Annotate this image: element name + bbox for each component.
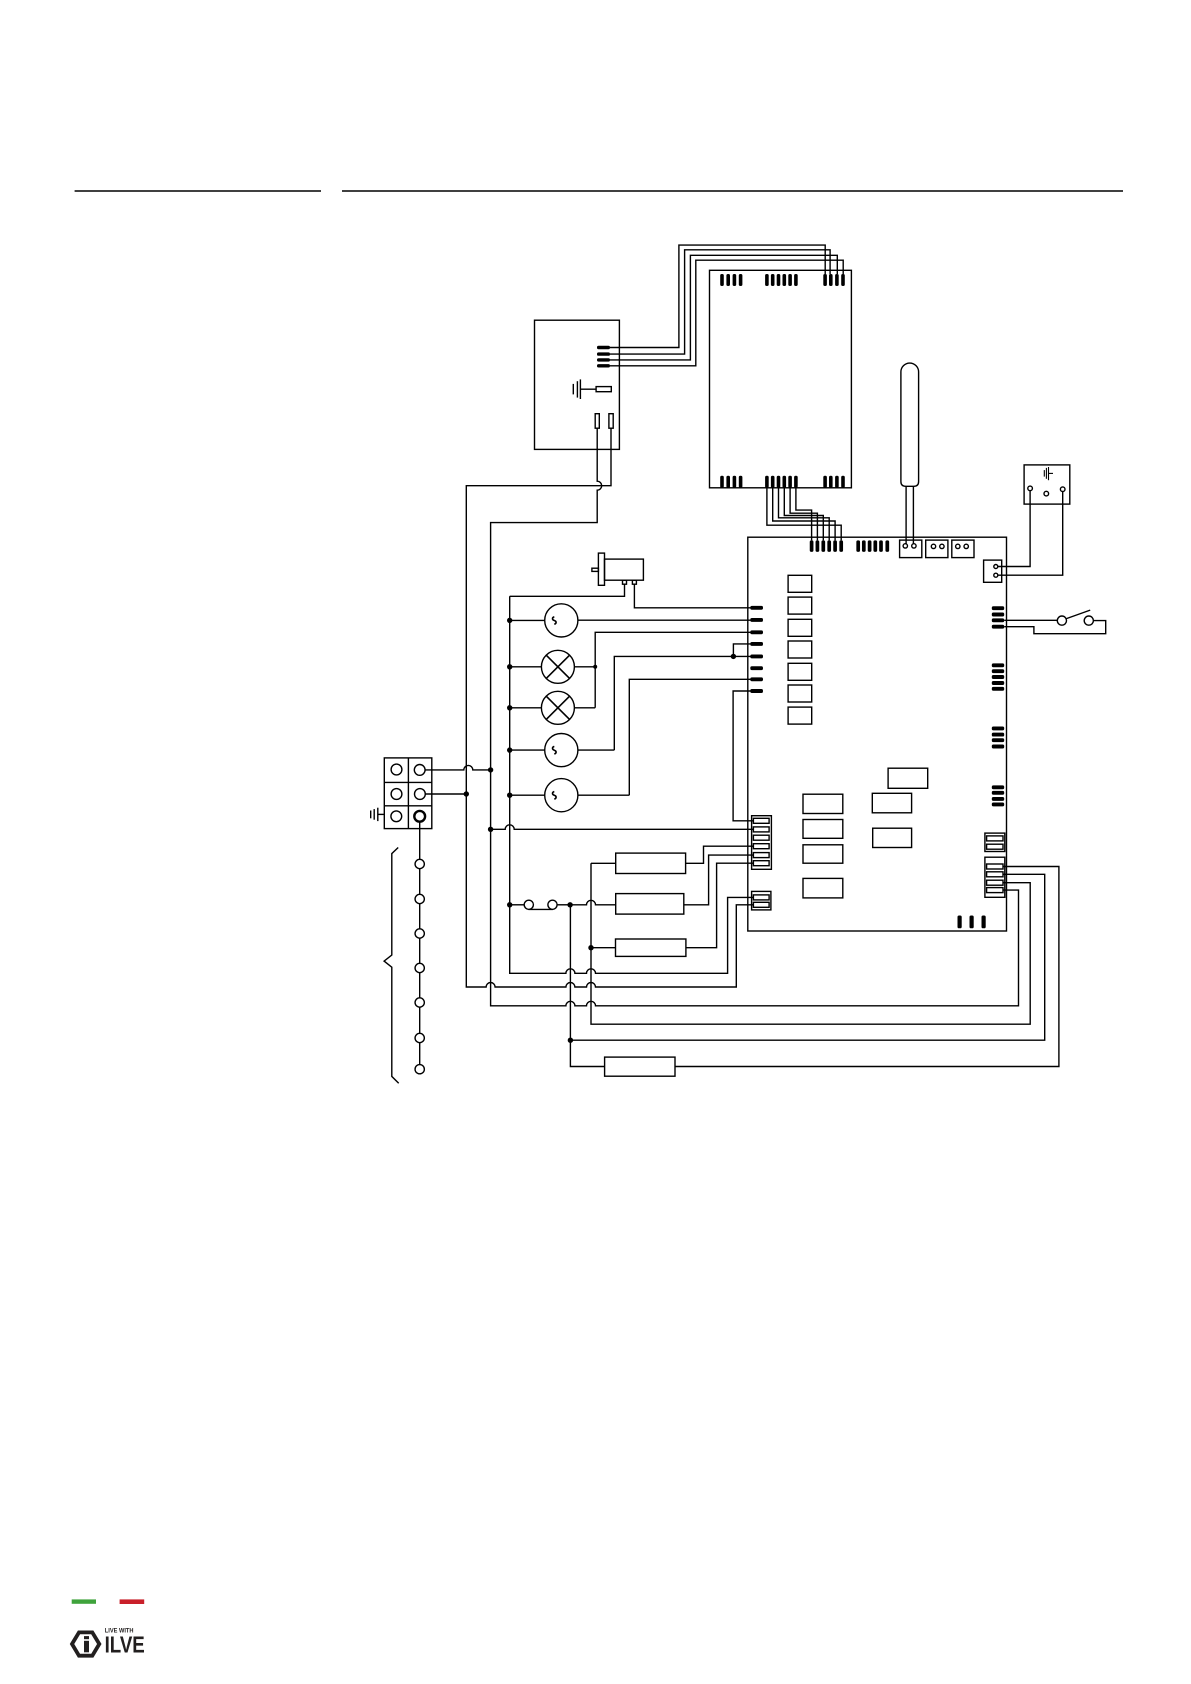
wire (686, 863, 754, 948)
wire (998, 492, 1063, 576)
main right connector CN-R3 (4 pins) (992, 726, 1004, 730)
plug pin E (1044, 491, 1049, 496)
fan motor M2 (545, 734, 578, 767)
wire (574, 666, 595, 668)
terminal 3a (391, 811, 402, 822)
display board U3 (710, 270, 852, 488)
junction (464, 791, 469, 796)
wire (773, 488, 835, 541)
terminal 2b (415, 789, 426, 800)
display connector bottom-right (4 pins) (823, 476, 827, 488)
thermocouple TC1 (415, 859, 424, 868)
terminal 3b (414, 811, 425, 822)
wire (557, 904, 570, 906)
wire (684, 855, 754, 905)
wire (614, 656, 751, 750)
junction (507, 902, 512, 907)
junction (488, 827, 493, 832)
wire (425, 793, 466, 795)
probe socket J1 (900, 540, 922, 558)
terminal 1b (414, 765, 425, 776)
wire (610, 250, 830, 354)
component Z1 (888, 768, 928, 788)
display connector top-mid (6 pins) (765, 274, 769, 286)
terminal 1a (391, 764, 402, 775)
main right connector CN-R4 (4 pins) (992, 785, 1004, 789)
wire (578, 749, 614, 751)
wire (425, 765, 491, 770)
main right connector CN-R1 (4 pins) (992, 606, 1004, 610)
fan motor M1 (545, 604, 578, 637)
heating element R2 (616, 894, 684, 915)
wire (591, 947, 616, 949)
thermocouple TC3 (415, 929, 424, 938)
wire (779, 488, 830, 541)
wire (570, 874, 1044, 1040)
thermocouple TC6 (415, 1033, 424, 1042)
ground (378, 813, 384, 815)
wire (1004, 619, 1057, 621)
wire (578, 794, 629, 796)
wire (733, 691, 753, 821)
door switch S1 (1057, 616, 1066, 625)
junction (593, 665, 597, 669)
wire (905, 486, 907, 544)
wire (790, 488, 817, 541)
main power board U1 (748, 537, 1007, 931)
thermocouple TC4 (415, 963, 424, 972)
wire (570, 905, 604, 1067)
control module U2 box (535, 320, 620, 449)
junction (507, 793, 512, 798)
header rule left (75, 190, 321, 192)
wire (510, 666, 542, 668)
wire (912, 486, 914, 544)
wire (998, 491, 1030, 567)
main left-edge connector CN-L (8 pins) (750, 606, 763, 610)
main connector CN-B (6 pins) (856, 540, 860, 552)
wire (466, 428, 753, 987)
component Z3 (873, 828, 912, 847)
plug pin L (1028, 486, 1033, 491)
junction (507, 705, 512, 710)
component Z7 (803, 878, 843, 898)
wire (675, 867, 1059, 1067)
wire (610, 255, 837, 360)
thermocouple TC7 (415, 1065, 424, 1074)
wire (510, 749, 545, 751)
svg-text:ILVE: ILVE (105, 1631, 145, 1657)
heating element R3 (616, 939, 686, 956)
oven lamp L2 (541, 691, 574, 724)
main left connector CN-P1 (6 ways) (752, 816, 772, 870)
main right connector CN-P3 (2 ways) (985, 833, 1005, 851)
main left connector CN-P2 (2 ways) (752, 891, 771, 910)
junction (567, 902, 572, 907)
terminal block TB1 (384, 758, 432, 829)
wire (767, 488, 841, 541)
junction (507, 618, 512, 623)
main connector CN-A (6 pins) (810, 540, 814, 552)
display connector top-right (4 pins) (823, 274, 827, 286)
thermocouple TC2 (415, 894, 424, 903)
component Z2 (872, 793, 911, 813)
junction (507, 664, 512, 669)
terminal 2a (391, 789, 402, 800)
wire (629, 679, 751, 795)
wire (491, 428, 1019, 1006)
component Z4 (803, 794, 843, 813)
main right connector CN-P4 (4 ways) (985, 857, 1005, 897)
wire (591, 863, 1030, 1024)
component Z5 (803, 820, 843, 839)
wire (491, 825, 754, 829)
main bottom pins (3) (958, 916, 962, 929)
display connector top-left (4 pins) (720, 274, 724, 286)
relay K4 (788, 641, 812, 658)
wire (578, 619, 751, 621)
brace (384, 848, 399, 1084)
wire (510, 596, 754, 973)
header rule right (342, 190, 1123, 192)
wire (733, 644, 751, 657)
ignition unit A1 (598, 553, 604, 585)
wire (510, 584, 625, 596)
relay K2 (788, 597, 812, 614)
logo flag green (72, 1599, 96, 1603)
junction (488, 767, 493, 772)
wire (510, 904, 525, 906)
module terminal T1 (595, 414, 599, 429)
fan motor M3 (545, 779, 578, 812)
relay K5 (788, 663, 812, 680)
fuse F1 (596, 387, 611, 392)
wire (574, 707, 595, 709)
wire (686, 846, 754, 863)
plug pin N (1060, 487, 1065, 492)
socket J2 (926, 540, 948, 558)
wire (595, 632, 751, 708)
main right connector CN-R2 (5 pins) (992, 663, 1004, 667)
component Z6 (803, 845, 843, 863)
junction (588, 945, 593, 950)
wire (634, 584, 751, 608)
logo flag red (120, 1599, 145, 1604)
relay K7 (788, 707, 812, 724)
thermocouple TC5 (415, 998, 424, 1007)
mains plug X1 (1024, 465, 1070, 504)
socket J3 (952, 540, 974, 558)
junction (731, 654, 736, 659)
oven lamp L1 (541, 650, 574, 683)
wire (796, 488, 812, 541)
wire (784, 488, 823, 541)
relay K3 (788, 619, 812, 636)
wire (591, 862, 616, 864)
mains connector J4 (984, 560, 1002, 582)
meat probe P1 (901, 363, 919, 486)
junction (507, 747, 512, 752)
heating element R4 (605, 1057, 675, 1076)
wire (610, 260, 843, 366)
relay K1 (788, 575, 812, 592)
heating element R1 (616, 853, 686, 873)
wire (1004, 621, 1105, 634)
ground (1043, 470, 1045, 477)
module connector CN1 pins 1-4 (597, 346, 610, 349)
display connector bottom-left (4 pins) (720, 476, 724, 488)
wire (510, 707, 542, 709)
wire (570, 900, 616, 905)
logo hexagon (72, 1632, 99, 1655)
ground (580, 388, 596, 390)
link connector X2 (524, 900, 533, 909)
wire (610, 245, 825, 347)
wire (510, 794, 545, 796)
display connector bottom-mid (6 pins) (765, 476, 769, 488)
junction (568, 1038, 573, 1043)
relay K6 (788, 685, 812, 702)
module terminal T2 (609, 414, 613, 429)
wire (510, 619, 545, 621)
wire (419, 822, 421, 1069)
